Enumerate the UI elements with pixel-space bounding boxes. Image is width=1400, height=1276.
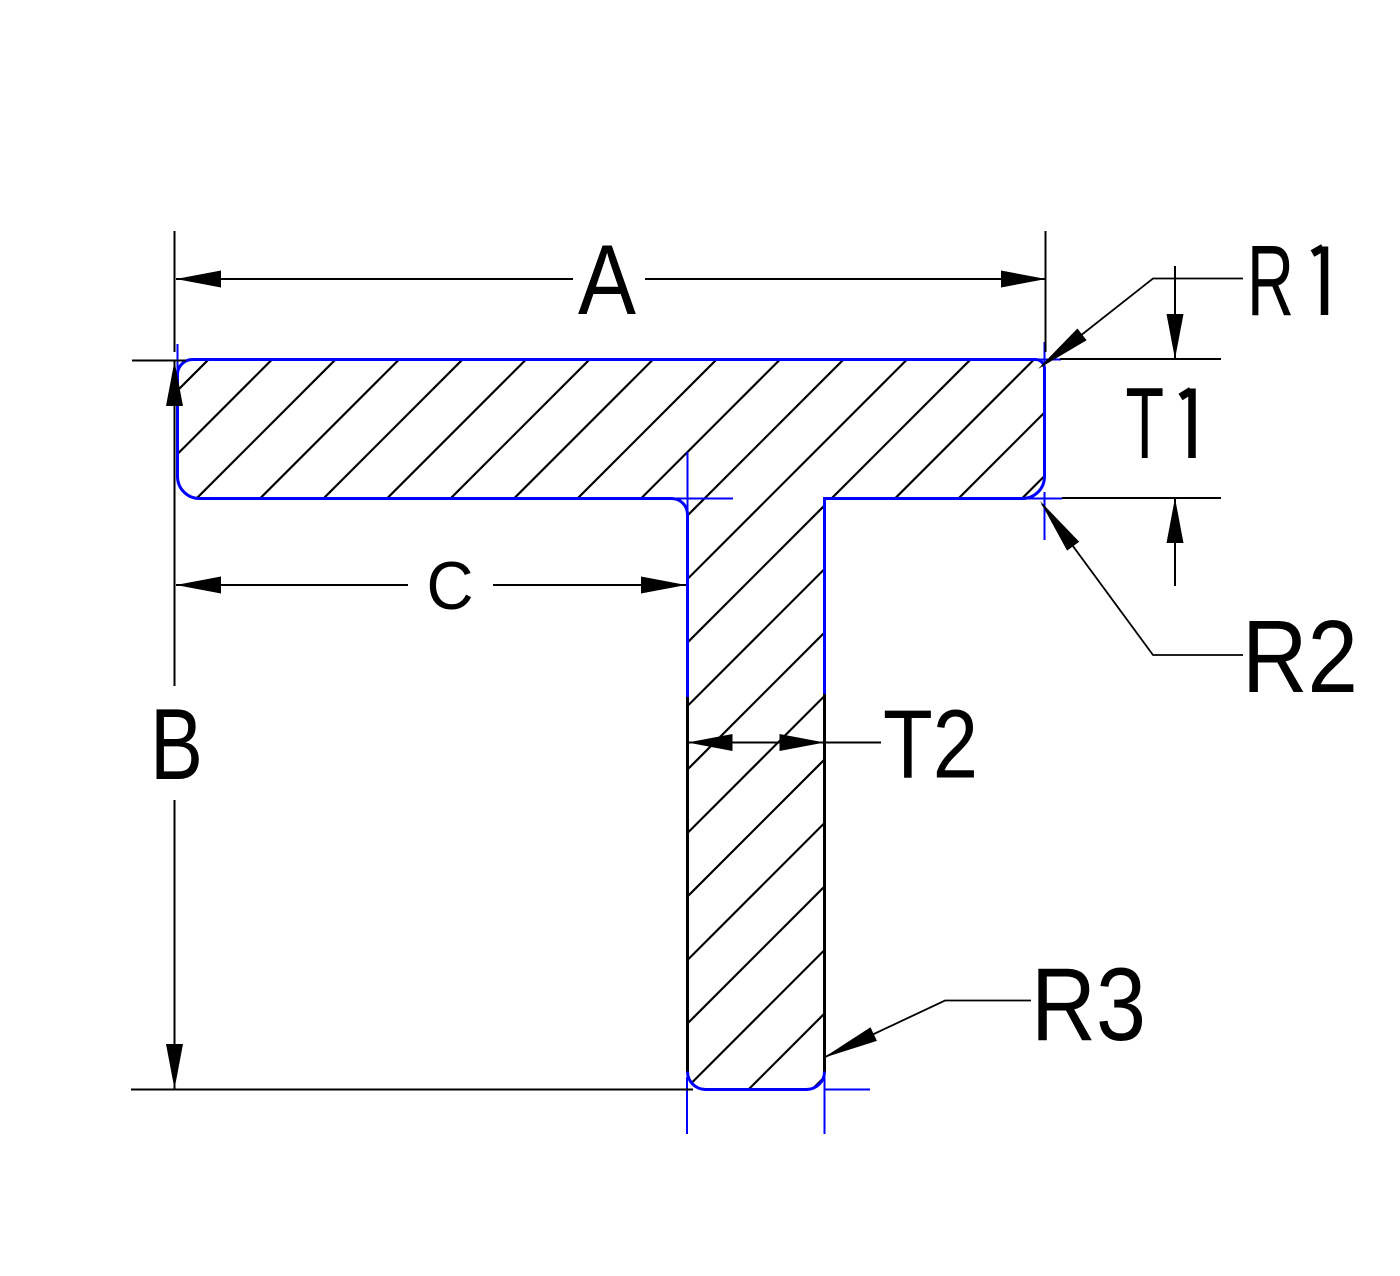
leader R3 (stem bottom fillet radius): [825, 1001, 1031, 1058]
svg-text:T: T: [1126, 368, 1165, 480]
svg-text:C: C: [427, 548, 474, 624]
dimension A (flange width): [175, 231, 1047, 352]
svg-text:R2: R2: [1242, 599, 1358, 714]
dimension T2 (stem thickness): [687, 742, 881, 744]
svg-text:B: B: [150, 689, 203, 801]
T-bar profile outline: [178, 360, 1045, 1090]
dimension B (overall height): [131, 361, 693, 1090]
dimension T1 (flange thickness): [1060, 266, 1221, 586]
dimension C (stem offset): [176, 584, 686, 586]
svg-text:R3: R3: [1031, 947, 1146, 1063]
leader R2 (flange corner fillet radius): [1042, 504, 1243, 655]
section hatch: [0, 330, 1400, 1100]
leader R1 (top-right fillet radius): [1042, 279, 1243, 367]
svg-text:A: A: [578, 224, 636, 335]
svg-text:T2: T2: [883, 690, 978, 799]
fillet tangent overshoot marks (blue): [178, 342, 1063, 1134]
lower stem edges drawn black: [688, 694, 825, 1072]
svg-text:R: R: [1247, 225, 1294, 337]
